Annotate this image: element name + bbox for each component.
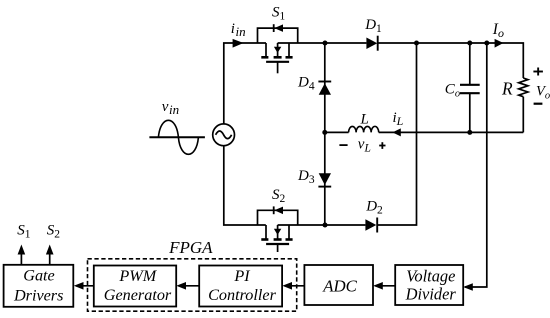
svg-text:Voltage: Voltage xyxy=(406,266,455,285)
vin waveform symbol sine xyxy=(158,120,198,154)
ac source V1 sine glyph xyxy=(216,131,232,139)
wire D2 cathode up to top rail xyxy=(377,43,416,225)
diode D2 cathode bar xyxy=(376,218,378,233)
mosfet S1 source leg xyxy=(288,43,290,57)
svg-text:Divider: Divider xyxy=(405,285,457,304)
wire top rail left (ac source to S1 drain) xyxy=(224,43,266,124)
mosfet S2 middle arrowhead xyxy=(274,229,281,235)
svg-text:D2: D2 xyxy=(365,199,383,217)
node dot bottom rail at bridge xyxy=(323,223,328,228)
svg-text:D3: D3 xyxy=(297,168,315,186)
svg-text:S2: S2 xyxy=(47,222,61,240)
diode D4 cathode bar xyxy=(318,81,331,83)
wire top rail S1 source to node A xyxy=(278,42,325,44)
diode D3 triangle xyxy=(319,173,331,185)
mosfet S2 gate bar xyxy=(266,243,289,245)
svg-text:PWM: PWM xyxy=(118,267,157,285)
resistor R zigzag xyxy=(519,78,528,97)
svg-text:S1: S1 xyxy=(17,222,31,240)
pi controller box xyxy=(199,266,282,307)
mosfet S1 drain leg xyxy=(265,43,267,57)
svg-text:S1: S1 xyxy=(272,5,286,23)
iL current arrowhead xyxy=(392,128,400,136)
arrow voltage divider to adc head xyxy=(373,282,383,290)
node dot top rail at feedback xyxy=(484,41,489,46)
svg-text:D4: D4 xyxy=(297,75,315,93)
mosfet S2 channel tick middle xyxy=(274,238,282,241)
svg-text:PI: PI xyxy=(233,267,251,285)
svg-text:S2: S2 xyxy=(272,187,286,205)
diode D1 triangle xyxy=(366,38,377,50)
svg-text:Gate: Gate xyxy=(23,267,54,285)
svg-text:Co: Co xyxy=(445,82,460,100)
arrow S2 gate signal head xyxy=(46,245,54,255)
node dot top rail at D2 return xyxy=(414,41,419,46)
mosfet S2 body-diode loop xyxy=(258,210,298,225)
mosfet S1 channel tick right xyxy=(286,56,293,59)
svg-text:R: R xyxy=(501,79,513,99)
gate drivers box xyxy=(4,265,74,307)
arrow adc to pi head xyxy=(282,282,292,290)
svg-text:vin: vin xyxy=(162,99,179,117)
node dot top rail at Co xyxy=(467,41,472,46)
svg-text:D1: D1 xyxy=(364,17,382,35)
wire bridge vertical (node A through D4 node C D3 to node B) xyxy=(324,43,326,225)
capacitor Co bottom plate xyxy=(460,92,480,94)
vL plus sign xyxy=(379,145,385,147)
mosfet S1 middle arrowhead xyxy=(274,47,281,53)
ac source V1 circle xyxy=(213,124,235,146)
wire resistor bottom to output minus rail xyxy=(522,97,524,133)
mosfet S2 channel tick left xyxy=(261,238,268,241)
node dot Co bottom xyxy=(467,130,472,135)
pwm generator box xyxy=(94,266,176,307)
adc box xyxy=(304,265,373,305)
Vo minus sign xyxy=(534,103,543,105)
mosfet S1 middle arrow shaft xyxy=(277,43,279,57)
arrow pi to pwm shaft xyxy=(179,285,200,287)
mosfet S2 drain leg xyxy=(265,225,267,240)
wire top rail D1 cathode to output corner xyxy=(378,43,524,78)
wire node C to inductor left xyxy=(325,131,349,133)
node dot C (bridge middle) xyxy=(322,130,327,135)
diode D2 triangle xyxy=(365,219,376,231)
svg-text:Controller: Controller xyxy=(208,286,276,304)
arrow pwm to gate drivers head xyxy=(74,282,84,290)
voltage divider box xyxy=(395,265,463,305)
svg-text:vL: vL xyxy=(358,136,371,154)
svg-text:ADC: ADC xyxy=(322,277,357,296)
diode D4 triangle xyxy=(319,83,331,94)
wire bottom rail node B to D2 anode xyxy=(325,224,365,226)
mosfet S1 body-diode loop xyxy=(258,28,298,43)
arrow S1 gate signal head xyxy=(18,245,26,255)
wire ac source bottom to bottom rail xyxy=(224,146,266,225)
vin waveform symbol axis xyxy=(149,136,205,138)
svg-text:Vo: Vo xyxy=(536,83,550,101)
iin current arrowhead xyxy=(233,39,244,48)
mosfet S2 middle arrow shaft xyxy=(277,225,279,240)
capacitor Co top plate xyxy=(460,84,480,86)
wire top rail node A to D1 anode xyxy=(325,42,366,44)
arrow pwm to gate drivers shaft xyxy=(76,285,94,287)
diode D3 cathode bar xyxy=(318,186,331,188)
mosfet S1 gate bar xyxy=(266,61,289,63)
svg-text:Io: Io xyxy=(492,21,504,40)
arrow S2 gate signal shaft xyxy=(49,252,51,265)
wire inductor right to output minus (iL wire) xyxy=(379,131,524,133)
node dot top rail at bridge xyxy=(323,41,328,46)
mosfet S1 gate lead stub xyxy=(277,62,279,74)
svg-text:iin: iin xyxy=(231,21,246,39)
mosfet S2 source leg xyxy=(288,225,290,240)
mosfet S1 channel tick middle xyxy=(274,56,282,59)
diode D1 cathode bar xyxy=(377,36,379,51)
mosfet S2 channel tick right xyxy=(286,238,293,241)
wire Co branch bottom xyxy=(469,94,471,132)
Vo plus sign xyxy=(533,71,543,73)
svg-text:Drivers: Drivers xyxy=(13,286,63,304)
mosfet S1 body-diode triangle xyxy=(274,24,283,32)
arrow feedback into voltage divider head xyxy=(463,283,473,291)
mosfet S2 body-diode triangle xyxy=(274,207,283,215)
wire feedback from output plus down to voltage divider xyxy=(465,43,487,287)
inductor L humps xyxy=(349,126,379,132)
mosfet S2 body-diode cathode bar xyxy=(273,206,275,214)
Io current arrowhead xyxy=(495,39,504,48)
arrow pi to pwm head xyxy=(176,282,186,290)
wire Co branch top xyxy=(469,43,471,84)
fpga dashed box xyxy=(88,259,297,311)
svg-text:iL: iL xyxy=(393,110,404,128)
svg-text:FPGA: FPGA xyxy=(168,238,213,257)
mosfet S2 gate lead stub xyxy=(277,244,279,252)
mosfet S1 body-diode cathode bar xyxy=(273,24,275,32)
wire bottom rail S2 source to node B xyxy=(278,224,325,226)
arrow S1 gate signal shaft xyxy=(20,252,22,265)
svg-text:Generator: Generator xyxy=(104,286,172,304)
svg-text:L: L xyxy=(360,111,369,127)
arrow adc to pi shaft xyxy=(285,285,305,287)
mosfet S1 channel tick left xyxy=(261,56,268,59)
arrow voltage divider to adc shaft xyxy=(375,285,395,287)
vL minus sign xyxy=(339,144,347,146)
